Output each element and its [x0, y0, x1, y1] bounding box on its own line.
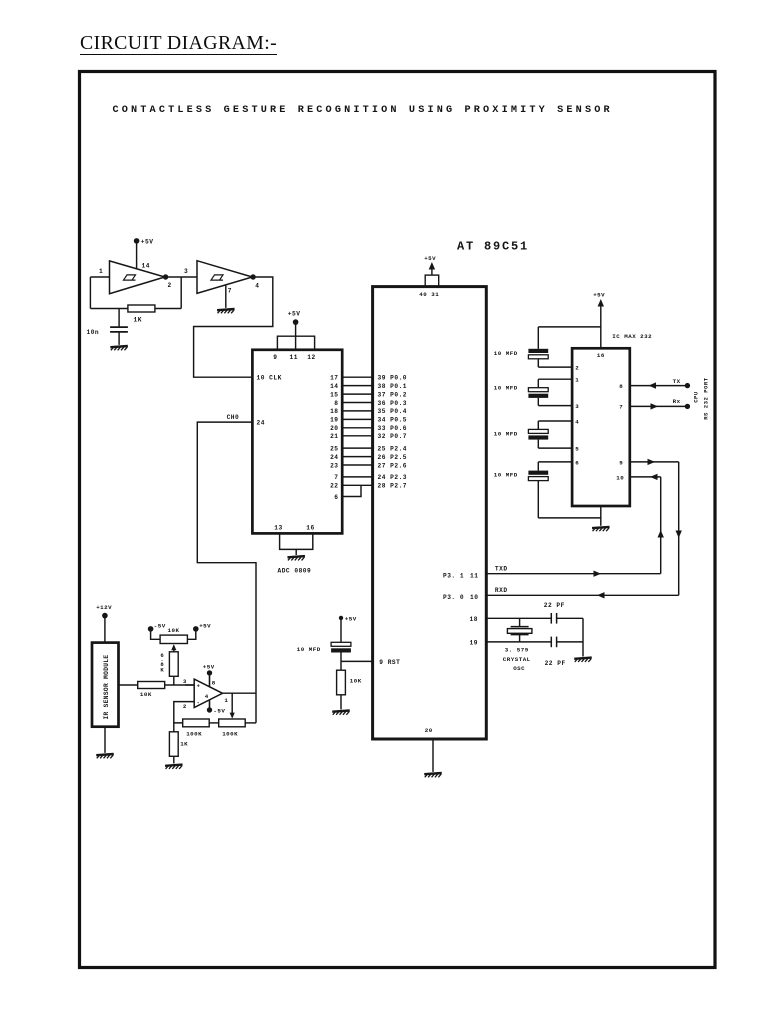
- power +5V terminal for ADC: [293, 319, 299, 325]
- svg-text:13: 13: [274, 525, 282, 532]
- capacitor C4 10 MFD reset: [331, 642, 351, 646]
- ground at R2: [332, 711, 350, 715]
- wire ADC pin 19 to MCU 34 P0.5: [342, 418, 372, 420]
- svg-text:TX: TX: [673, 378, 681, 385]
- wire U2B pin 7 to ground: [225, 285, 227, 308]
- wire IR output: [119, 684, 138, 686]
- svg-text:RXD: RXD: [495, 587, 508, 594]
- svg-text:TXD: TXD: [495, 566, 508, 573]
- svg-text:-5V: -5V: [213, 707, 225, 714]
- svg-text:3. 579: 3. 579: [505, 647, 529, 654]
- svg-text:11: 11: [470, 572, 478, 579]
- ground at U2B pin 7: [217, 309, 235, 313]
- svg-text:OSC: OSC: [513, 665, 525, 672]
- svg-text:+5V: +5V: [203, 664, 215, 671]
- wire MCU pin 19 line: [486, 641, 551, 643]
- ground at MAX232: [592, 527, 610, 531]
- svg-text:1: 1: [575, 377, 579, 384]
- svg-text:25 P2.4: 25 P2.4: [378, 445, 408, 452]
- wire +5V to U2 pin 14: [136, 241, 138, 269]
- svg-text:22 PF: 22 PF: [545, 660, 566, 667]
- svg-text:4: 4: [575, 418, 579, 425]
- resistor R4 6.8K: [169, 652, 178, 677]
- svg-text:22 PF: 22 PF: [544, 602, 565, 609]
- resistor R1 1K: [128, 305, 155, 312]
- node TX terminal: [685, 383, 690, 388]
- wire +12V to IR module: [104, 616, 106, 643]
- wire ADC pin 14 to MCU 38 P0.1: [342, 385, 372, 387]
- page border frame: [80, 72, 716, 968]
- wire summing node to R4: [173, 676, 175, 685]
- wire ADC pin 18 to MCU 35 P0.4: [342, 410, 372, 412]
- wire ADC +5V bracket: [295, 322, 297, 350]
- svg-text:25: 25: [330, 445, 338, 452]
- wire output riser: [255, 693, 257, 723]
- svg-text:33 P0.6: 33 P0.6: [378, 425, 408, 432]
- wire R8 to ground: [173, 756, 175, 763]
- power +5V arrow for MCU: [431, 264, 433, 275]
- wire capacitor tap: [118, 309, 120, 328]
- svg-text:+5V: +5V: [593, 291, 605, 298]
- wire R6 to R7: [209, 722, 219, 724]
- power -5V terminal for U3: [207, 707, 212, 712]
- IR sensor module body: [92, 643, 119, 727]
- wire crystal top stub: [519, 618, 521, 626]
- resistor R3 10K: [138, 682, 165, 689]
- wire MAX232 pin 15 to ground: [600, 506, 602, 526]
- svg-text:16: 16: [306, 525, 314, 532]
- node U2B output junction: [250, 274, 255, 279]
- wire TXD riser to MAX232 pin 10: [660, 477, 662, 574]
- svg-text:8: 8: [619, 383, 623, 390]
- capacitor C6 10 MFD: [538, 378, 572, 380]
- wire MAX232 pin 10 to TXD riser: [630, 476, 661, 478]
- wire +5V to C4: [340, 618, 342, 642]
- svg-text:4: 4: [255, 282, 259, 289]
- capacitor C7 10 MFD: [538, 420, 572, 422]
- svg-text:Rx: Rx: [673, 398, 681, 405]
- wire ADC pin 24 to MCU 26 P2.5: [342, 456, 372, 458]
- capacitor C2 22 PF top: [550, 613, 552, 624]
- svg-text:19: 19: [470, 639, 478, 646]
- svg-text:7: 7: [334, 474, 338, 481]
- svg-text:CONTACTLESS GESTURE RECOGNITIO: CONTACTLESS GESTURE RECOGNITION USING PR…: [113, 105, 613, 116]
- svg-text:IC MAX 232: IC MAX 232: [612, 333, 652, 340]
- svg-text:27 P2.6: 27 P2.6: [378, 462, 408, 469]
- wire crystal bottom stub: [519, 635, 521, 642]
- svg-text:10 MFD: 10 MFD: [494, 430, 518, 437]
- wire pot left to -5V: [151, 629, 161, 639]
- power +5V arrow for MAX232: [600, 301, 602, 348]
- svg-text:9 RST: 9 RST: [379, 659, 400, 666]
- svg-text:+5V: +5V: [345, 616, 357, 623]
- svg-text:8: 8: [212, 680, 216, 687]
- svg-text:12: 12: [307, 354, 315, 361]
- svg-text:5: 5: [575, 446, 579, 453]
- svg-text:+5V: +5V: [288, 311, 301, 318]
- svg-text:7: 7: [228, 287, 232, 294]
- svg-text:9: 9: [273, 354, 277, 361]
- wire MCU pin 18 line: [486, 617, 551, 619]
- svg-text:10K: 10K: [350, 678, 362, 685]
- wire ADC pin 20 to MCU 33 P0.6: [342, 427, 372, 429]
- svg-text:10 MFD: 10 MFD: [494, 384, 518, 391]
- wire MCU pin 20 to ground: [432, 739, 434, 772]
- svg-text:+: +: [197, 684, 201, 690]
- wire U3 pin 8: [209, 673, 211, 687]
- resistor R2 10K reset: [337, 670, 346, 695]
- wire C4 to RST node: [340, 653, 342, 671]
- wire R7 to output riser: [245, 722, 256, 724]
- wire MAX232 pin 9 to RXD riser: [630, 461, 679, 463]
- ground at MCU pin 20: [424, 773, 442, 777]
- svg-text:+5V: +5V: [424, 255, 436, 262]
- schmitt inverter U2A: [110, 261, 165, 294]
- svg-text:32 P0.7: 32 P0.7: [378, 433, 408, 440]
- crystal X1 3.579 MHz: [511, 626, 529, 628]
- capacitor C8 10 MFD: [538, 461, 572, 463]
- svg-text:RS 232 PORT: RS 232 PORT: [702, 377, 709, 420]
- svg-text:3: 3: [575, 403, 579, 410]
- wire IR module to ground: [104, 727, 106, 753]
- wire feedback left vertical: [89, 277, 91, 309]
- svg-text:23: 23: [330, 462, 338, 469]
- wire U3 pin 4: [209, 700, 211, 710]
- wire ADC pin 6 to pin 22 net: [342, 485, 361, 496]
- svg-text:2: 2: [575, 365, 579, 372]
- svg-text:36 P0.3: 36 P0.3: [378, 400, 408, 407]
- ground at crystal caps: [574, 658, 592, 662]
- svg-text:10 MFD: 10 MFD: [494, 472, 518, 479]
- svg-text:10 MFD: 10 MFD: [494, 350, 518, 357]
- svg-text:34 P0.5: 34 P0.5: [378, 417, 408, 424]
- wire U2A output to U2B input: [165, 276, 197, 278]
- svg-text:CRYSTAL: CRYSTAL: [503, 656, 531, 663]
- svg-text:ADC 0809: ADC 0809: [278, 568, 312, 575]
- wire caps common to ground: [582, 618, 584, 656]
- svg-text:3: 3: [183, 678, 187, 685]
- IC ADC0809 body: [252, 350, 342, 534]
- svg-text:1K: 1K: [134, 316, 142, 323]
- wire R4 to pot wiper: [173, 646, 175, 652]
- wire RXD to MCU pin 10: [486, 594, 678, 596]
- svg-text:+12V: +12V: [96, 604, 112, 611]
- svg-text:8: 8: [334, 400, 338, 407]
- wire TXD from MCU pin 11: [486, 573, 660, 575]
- ground at C1: [110, 346, 128, 350]
- wire ADC ground bracket: [280, 533, 313, 549]
- wire U2B output to clock staircase: [194, 277, 273, 377]
- wire R1 to output riser: [155, 308, 181, 310]
- op-amp U3: [194, 679, 222, 707]
- svg-text:14: 14: [142, 263, 150, 270]
- capacitor C1 10n: [110, 326, 128, 328]
- svg-text:2: 2: [183, 703, 187, 710]
- svg-text:10: 10: [616, 474, 624, 481]
- wire pot right to +5V: [187, 629, 195, 639]
- svg-text:15: 15: [330, 391, 338, 398]
- svg-text:IR SENSOR MODULE: IR SENSOR MODULE: [103, 654, 110, 719]
- wire U3 output: [223, 692, 257, 694]
- svg-text:38 P0.1: 38 P0.1: [378, 383, 408, 390]
- svg-text:18: 18: [470, 616, 478, 623]
- wire MAX232 pin 7 Rx line: [630, 405, 688, 407]
- svg-text:P3. 1: P3. 1: [443, 572, 464, 579]
- capacitor C5 10 MFD: [538, 326, 601, 328]
- svg-text:22: 22: [330, 483, 338, 490]
- svg-text:9: 9: [619, 459, 623, 466]
- wire CH0 net: [197, 422, 256, 693]
- power +5V terminal for reset: [339, 616, 343, 620]
- ground at IR module: [96, 754, 114, 758]
- svg-text:3: 3: [184, 268, 188, 275]
- wire ADC pin 8 to MCU 36 P0.3: [342, 402, 372, 404]
- svg-text:39 P0.0: 39 P0.0: [378, 375, 408, 382]
- svg-text:19: 19: [330, 417, 338, 424]
- wire ADC pin 23 to MCU 27 P2.6: [342, 464, 372, 466]
- power -5V terminal at pot: [148, 626, 154, 632]
- potentiometer R5 10K: [160, 635, 187, 643]
- schmitt inverter U2B: [197, 261, 252, 294]
- svg-text:17: 17: [330, 375, 338, 382]
- svg-text:28 P2.7: 28 P2.7: [378, 483, 408, 490]
- svg-text:100K: 100K: [222, 730, 238, 737]
- wire MAX232 pin 8 TX line: [630, 385, 688, 387]
- svg-text:10K: 10K: [140, 691, 152, 698]
- svg-text:20: 20: [330, 425, 338, 432]
- capacitor C3 22 PF bottom: [550, 637, 552, 648]
- MCU EA-VCC notch: [425, 275, 439, 287]
- svg-text:10n: 10n: [87, 329, 100, 336]
- svg-text:AT 89C51: AT 89C51: [457, 239, 529, 253]
- svg-text:24 P2.3: 24 P2.3: [378, 474, 408, 481]
- power +12V terminal: [102, 613, 108, 619]
- svg-text:37 P0.2: 37 P0.2: [378, 391, 408, 398]
- svg-text:2: 2: [168, 282, 172, 289]
- svg-text:11: 11: [290, 354, 298, 361]
- wire ADC pin 22 to MCU 28 P2.7: [342, 484, 372, 486]
- svg-text:6: 6: [575, 459, 579, 466]
- svg-text:24: 24: [257, 420, 265, 427]
- svg-text:6: 6: [334, 494, 338, 501]
- svg-text:-: -: [197, 700, 201, 706]
- wire RST node to MCU pin 9: [341, 660, 373, 662]
- svg-text:16: 16: [597, 352, 605, 359]
- svg-text:4: 4: [205, 693, 209, 700]
- node U2A output junction: [163, 274, 168, 279]
- wire ADC pin 17 to MCU 39 P0.0: [342, 376, 372, 378]
- potentiometer R7 100K: [219, 719, 246, 727]
- wire C1 to ground: [118, 332, 120, 345]
- svg-text:1: 1: [224, 697, 228, 704]
- wire U3 pin 2 to feedback node: [174, 702, 194, 723]
- svg-text:CPU: CPU: [693, 391, 700, 403]
- wire R2 to ground: [340, 695, 342, 710]
- svg-text:10: 10: [470, 594, 478, 601]
- svg-text:CH0: CH0: [227, 414, 240, 421]
- svg-text:K: K: [160, 667, 164, 674]
- wire feedback bottom left: [90, 308, 128, 310]
- document heading CIRCUIT DIAGRAM: [80, 33, 277, 55]
- power +5V terminal for U2: [134, 238, 140, 244]
- svg-text:26 P2.5: 26 P2.5: [378, 454, 408, 461]
- svg-text:1: 1: [99, 268, 103, 275]
- svg-text:7: 7: [619, 403, 623, 410]
- wire R7 wiper to output: [231, 693, 233, 716]
- svg-text:14: 14: [330, 383, 338, 390]
- wire ADC pin 15 to MCU 37 P0.2: [342, 393, 372, 395]
- wire feedback node to R8: [173, 723, 175, 732]
- power +5V terminal for U3: [207, 670, 212, 675]
- svg-text:24: 24: [330, 454, 338, 461]
- svg-text:+5V: +5V: [199, 623, 211, 630]
- svg-text:1K: 1K: [180, 740, 188, 747]
- svg-text:10K: 10K: [168, 627, 180, 634]
- svg-text:100K: 100K: [186, 730, 202, 737]
- svg-text:35 P0.4: 35 P0.4: [378, 408, 408, 415]
- power +5V terminal at pot: [193, 626, 199, 632]
- wire ADC pin 21 to MCU 32 P0.7: [342, 435, 372, 437]
- node Rx terminal: [685, 404, 690, 409]
- ground at R8: [165, 765, 183, 769]
- wire feedback riser to U2A output: [180, 277, 182, 309]
- svg-text:10 CLK: 10 CLK: [257, 375, 282, 382]
- svg-text:P3. 0: P3. 0: [443, 594, 464, 601]
- resistor R6 100K: [183, 719, 210, 727]
- svg-text:-5V: -5V: [154, 623, 166, 630]
- IC AT89C51 body: [373, 287, 487, 739]
- svg-text:10 MFD: 10 MFD: [297, 646, 321, 653]
- svg-text:20: 20: [425, 727, 433, 734]
- wire input to U2A pin 1: [90, 276, 109, 278]
- wire U3 pin 3 input: [185, 684, 194, 686]
- svg-text:21: 21: [330, 433, 338, 440]
- svg-text:18: 18: [330, 408, 338, 415]
- wire ADC pin 25 to MCU 25 P2.4: [342, 447, 372, 449]
- wire ADC pin 7 to MCU 24 P2.3: [342, 476, 372, 478]
- ground at ADC: [287, 556, 305, 560]
- resistor R8 1K: [169, 732, 178, 757]
- wire RXD riser from MAX232 pin 9: [678, 462, 680, 595]
- wire R3 to summing node: [165, 684, 195, 686]
- svg-text:+5V: +5V: [141, 239, 154, 246]
- IC MAX232 body: [572, 348, 630, 506]
- svg-text:40 31: 40 31: [419, 291, 439, 298]
